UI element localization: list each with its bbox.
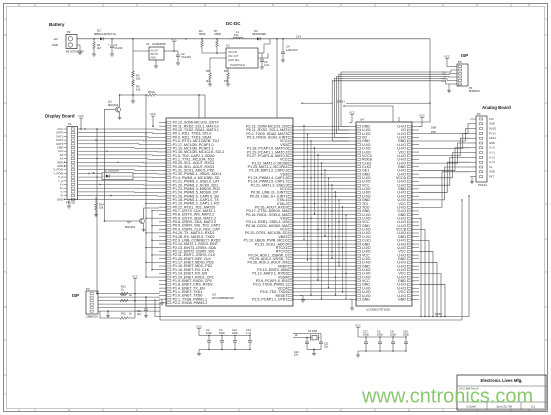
svg-text:Display Board: Display Board: [45, 114, 75, 119]
section label Battery: [49, 22, 65, 27]
svg-text:GND: GND: [489, 122, 495, 126]
ground crystal: [312, 350, 316, 356]
resistor R7: [214, 29, 221, 50]
svg-text:MH1902: MH1902: [125, 225, 136, 229]
svg-text:SB160SMD: SB160SMD: [252, 32, 266, 36]
ground caps1: [197, 352, 201, 356]
resistor R3 divider: [132, 80, 141, 96]
resistor R1: [93, 39, 102, 52]
svg-text:U-I.0: U-I.0: [489, 146, 495, 150]
ground P5: [447, 84, 451, 93]
svg-text:VCC: VCC: [132, 275, 138, 279]
diode module D1: [93, 169, 133, 180]
svg-text:PXC14: PXC14: [478, 183, 487, 187]
net label DAIN: [435, 312, 442, 316]
svg-text:AD0.1: AD0.1: [489, 136, 497, 140]
svg-text:4k7: 4k7: [97, 46, 102, 50]
svg-text:Battery: Battery: [49, 22, 65, 27]
svg-text:CMBGO4: CMBGO4: [86, 315, 98, 319]
svg-text:MBRA140T3LT1G: MBRA140T3LT1G: [94, 32, 116, 36]
svg-text:C: C: [136, 409, 138, 412]
capacitor C3: [219, 328, 225, 350]
diode D2: [94, 29, 116, 41]
resistor R14: [94, 197, 104, 217]
svg-text:GND: GND: [489, 141, 495, 145]
svg-text:22n: 22n: [294, 354, 299, 357]
section label Display Board: [45, 114, 75, 119]
wire Q1 base feed: [104, 110, 106, 222]
ground battery: [78, 50, 83, 55]
svg-text:GND: GND: [151, 57, 157, 60]
ground U3 right: [300, 296, 305, 303]
svg-text:CMD: CMD: [57, 146, 63, 150]
svg-text:P00: P00: [431, 130, 436, 134]
svg-text:U-I.1: U-I.1: [489, 151, 495, 155]
svg-text:RED: RED: [57, 160, 63, 164]
ground R5: [208, 82, 212, 86]
power flag VCC P5: [444, 55, 453, 67]
power flag VCC ISP: [132, 275, 138, 294]
svg-text:R11: R11: [121, 312, 126, 316]
svg-text:R10: R10: [121, 293, 126, 297]
svg-text:10k: 10k: [136, 88, 141, 92]
section label Analog Board: [482, 105, 511, 110]
resistor R12: [120, 284, 128, 295]
svg-text:ON OUT: ON OUT: [228, 54, 239, 58]
ground C1: [110, 52, 114, 56]
ground U4: [349, 299, 354, 310]
svg-text:6R33: 6R33: [199, 32, 206, 36]
capacitor C10: [137, 297, 148, 316]
svg-text:X_POW: X_POW: [53, 168, 63, 172]
svg-text:GND: GND: [57, 164, 63, 168]
wire U2 out: [264, 39, 270, 58]
svg-text:PY10: PY10: [489, 131, 496, 135]
svg-text:12V: 12V: [296, 34, 301, 38]
svg-text:3.3u: 3.3u: [264, 63, 270, 67]
svg-text:Analog Board: Analog Board: [482, 105, 511, 110]
svg-text:10k: 10k: [99, 206, 104, 210]
svg-text:CLK: CLK: [58, 149, 63, 153]
capacitor C2 output: [174, 51, 191, 61]
svg-text:22n: 22n: [324, 345, 329, 348]
svg-text:PXT: PXT: [489, 175, 495, 179]
svg-text:1.1u: 1.1u: [246, 331, 252, 335]
wire caps1 rails: [199, 335, 251, 352]
connector P4: [470, 112, 497, 187]
svg-text:X-: X-: [60, 194, 63, 198]
svg-text:A1: A1: [60, 157, 64, 161]
net label P00: [431, 130, 436, 134]
connector P1: [66, 122, 78, 204]
ram U4: [349, 118, 419, 312]
connector P5: [453, 60, 480, 93]
svg-text:R6: R6: [224, 69, 228, 73]
svg-text:100n: 100n: [377, 332, 383, 336]
svg-text:www.cntronics.com: www.cntronics.com: [361, 386, 533, 408]
svg-text:P5: P5: [458, 60, 462, 64]
svg-text:G: G: [408, 409, 410, 412]
ground R1: [92, 52, 96, 56]
svg-text:PLM2574HV: PLM2574HV: [230, 63, 245, 67]
svg-text:GND: GND: [362, 297, 370, 301]
svg-text:VCC: VCC: [419, 114, 425, 118]
svg-text:DAC0: DAC0: [489, 127, 497, 131]
svg-text:MH1902: MH1902: [108, 103, 119, 107]
svg-text:VCC: VCC: [150, 112, 156, 116]
wire battery minus: [77, 45, 80, 50]
svg-text:C: C: [136, 4, 138, 7]
section label ISP upper: [461, 53, 468, 58]
svg-text:LP2824935: LP2824935: [152, 42, 166, 46]
svg-text:VCC: VCC: [171, 38, 177, 42]
transistor Q1: [104, 94, 133, 116]
svg-text:DAT1: DAT1: [56, 134, 63, 138]
svg-text:P1: P1: [68, 122, 72, 126]
svg-text:P2.5..PCAP1.1..DTR1: P2.5..PCAP1.1..DTR1: [252, 297, 288, 301]
svg-text:10k: 10k: [136, 77, 141, 81]
svg-text:G: G: [408, 4, 410, 7]
wire battery plus: [77, 38, 97, 40]
resistor R9: [133, 90, 200, 97]
svg-text:GND: GND: [52, 43, 58, 47]
svg-text:Q3: Q3: [127, 220, 131, 224]
svg-text:VCC: VCC: [78, 114, 84, 118]
transistor Q3: [104, 208, 159, 229]
ground caps2: [356, 353, 360, 357]
svg-text:VCC: VCC: [355, 324, 361, 328]
wire MCU left stubs to bus: [145, 94, 159, 278]
resistor R10: [120, 293, 135, 302]
svg-text:BH6RCM: BH6RCM: [469, 90, 480, 93]
capacitor C14: [246, 328, 252, 350]
svg-text:Y-: Y-: [61, 190, 64, 194]
wire U1 input: [133, 39, 144, 51]
svg-text:GND: GND: [489, 170, 495, 174]
svg-text:100n: 100n: [390, 332, 396, 336]
svg-text:H: H: [476, 409, 478, 412]
wire crystal gnd rail: [307, 349, 321, 351]
svg-text:DRG1: DRG1: [337, 99, 345, 103]
power flag VCC caps1: [196, 325, 202, 336]
svg-text:ISP: ISP: [461, 53, 468, 58]
wire bottom bus DAIN: [155, 195, 470, 320]
switcher U2: [220, 44, 264, 69]
wire VBUS to U3 top: [276, 39, 278, 118]
svg-text:Electronic Lives Mfg.: Electronic Lives Mfg.: [481, 378, 523, 383]
wire channel to U4 top: [343, 105, 393, 122]
ground P3 stub: [106, 310, 110, 317]
capacitor C17: [363, 329, 369, 351]
svg-text:VCC: VCC: [196, 325, 202, 329]
capacitor C4: [281, 39, 298, 62]
svg-text:100n: 100n: [206, 331, 212, 335]
svg-text:H: H: [528, 409, 530, 412]
svg-text:R5: R5: [206, 69, 210, 73]
svg-text:DAT0: DAT0: [56, 131, 63, 135]
power flag VCC U4 right: [419, 114, 425, 127]
capacitor C16: [403, 329, 409, 351]
ground C2: [176, 61, 180, 65]
svg-text:RST: RST: [442, 81, 447, 83]
wire bundle U4 to P4: [419, 124, 470, 207]
crystal X1: [293, 330, 321, 342]
svg-text:H: H: [476, 4, 478, 7]
svg-text:U4: U4: [360, 118, 364, 122]
svg-text:4k7: 4k7: [137, 312, 142, 316]
wire feed to U3 top: [199, 95, 205, 118]
connector P2: [52, 30, 85, 53]
capacitor C9: [260, 53, 270, 69]
svg-text:P4: P4: [477, 112, 481, 116]
svg-text:P2: P2: [67, 30, 71, 34]
svg-text:U1: U1: [146, 42, 150, 46]
wire bundle U3 to U4: [300, 126, 349, 299]
svg-text:D1 100352A: D1 100352A: [104, 169, 119, 173]
capacitor C2a: [206, 328, 212, 350]
wire 12V to analog: [399, 39, 430, 122]
ground divider: [131, 95, 135, 103]
svg-text:ISP: ISP: [72, 293, 79, 298]
resistor R2 divider: [132, 51, 141, 81]
svg-text:GND: GND: [57, 197, 63, 201]
ground U3 left: [160, 299, 164, 305]
capacitor C8: [390, 329, 396, 351]
svg-text:100n: 100n: [363, 332, 369, 336]
connector P1 pin labels: [53, 127, 67, 201]
svg-text:H: H: [528, 4, 530, 7]
wire bundle P3 to U3: [96, 293, 160, 311]
svg-text:X_A: X_A: [58, 175, 63, 179]
svg-text:XX 18M: XX 18M: [308, 330, 317, 333]
svg-text:VIN FB: VIN FB: [228, 50, 237, 54]
wire bundle P1 to U3: [78, 128, 160, 199]
svg-text:D: D: [204, 409, 206, 412]
ground U1: [154, 60, 158, 68]
capacitor C5: [377, 329, 383, 351]
ground P1 bottom: [67, 200, 71, 209]
svg-text:140u/16V: 140u/16V: [286, 48, 298, 52]
ground C10: [144, 314, 148, 318]
svg-text:VCC: VCC: [349, 111, 355, 115]
ground P4: [470, 177, 474, 184]
power flag VCC display: [78, 114, 84, 130]
svg-text:GND: GND: [398, 297, 406, 301]
wire caps2 rails: [358, 336, 407, 353]
svg-text:100n: 100n: [219, 331, 225, 335]
net label D08: [431, 126, 436, 130]
resistor R6: [224, 68, 229, 83]
svg-text:PPC20: PPC20: [66, 201, 76, 205]
svg-text:10u: 10u: [234, 33, 239, 37]
wire channel verticals: [303, 125, 346, 299]
svg-text:C50R: C50R: [214, 32, 221, 36]
svg-text:DC-DC: DC-DC: [226, 21, 241, 26]
svg-text:U-I.3: U-I.3: [489, 160, 495, 164]
svg-text:DAT2: DAT2: [56, 138, 63, 142]
svg-text:Y_POW: Y_POW: [53, 171, 63, 175]
inductor L1: [227, 30, 250, 39]
svg-text:47u/16V: 47u/16V: [181, 55, 191, 59]
ground Q1: [118, 116, 122, 120]
section label DC-DC: [226, 21, 241, 26]
ground Q3: [142, 228, 146, 232]
svg-text:D08: D08: [431, 126, 436, 130]
wire vertical display feed: [96, 128, 98, 293]
svg-text:+12: +12: [53, 37, 58, 41]
resistor R4: [199, 29, 206, 50]
capacitor C12: [232, 328, 238, 350]
svg-text:UL: UL: [489, 165, 493, 169]
svg-text:DAIN: DAIN: [435, 312, 442, 316]
resistor R11: [100, 301, 135, 320]
microcontroller U3: [159, 118, 300, 306]
svg-text:A0: A0: [60, 153, 64, 157]
svg-text:DAT3: DAT3: [56, 142, 63, 146]
svg-text:X+: X+: [60, 186, 64, 190]
regulator U1: [144, 42, 174, 60]
svg-text:R9 1k: R9 1k: [148, 90, 156, 94]
svg-text:Y_A: Y_A: [58, 179, 63, 183]
svg-text:VCC: VCC: [444, 55, 450, 59]
svg-text:47u/16: 47u/16: [114, 46, 123, 50]
power flag VCC U4: [349, 111, 355, 123]
wire U4 right drops: [419, 218, 446, 317]
wire 12V rail: [112, 38, 430, 40]
capacitor C11: [319, 342, 329, 350]
net label 12V: [296, 34, 301, 38]
svg-text:LCA256U/75T100U: LCA256U/75T100U: [366, 308, 390, 312]
power flag VCC U1 out: [171, 38, 177, 52]
watermark: [361, 386, 533, 408]
svg-text:+: +: [108, 42, 110, 46]
wire U2 vin: [202, 50, 220, 54]
ground R6: [226, 82, 230, 86]
diode D3: [250, 29, 270, 40]
svg-text:U2: U2: [226, 44, 230, 48]
svg-text:100n: 100n: [403, 332, 409, 336]
section label ISP lower: [72, 293, 79, 298]
power flag VCC caps2: [355, 324, 361, 337]
svg-text:U-I.2: U-I.2: [489, 155, 495, 159]
capacitor C1: [108, 38, 123, 52]
svg-text:100n: 100n: [232, 331, 238, 335]
svg-text:LPC2368FBD100: LPC2368FBD100: [212, 296, 234, 300]
resistor R5: [206, 58, 220, 83]
svg-text:12V: 12V: [489, 117, 494, 121]
connector P3: [86, 287, 98, 319]
power flag VCC bundle: [150, 112, 156, 127]
net label DRG1: [301, 99, 430, 104]
capacitor C13: [294, 337, 309, 357]
title block: [457, 375, 546, 410]
svg-text:D: D: [204, 4, 206, 7]
svg-text:Y+: Y+: [60, 183, 64, 187]
wire bundle P5 to channel: [332, 70, 453, 141]
svg-text:GND SIG: GND SIG: [228, 58, 239, 62]
svg-text:P2.2..RXD8..PWM1.2: P2.2..RXD8..PWM1.2: [173, 301, 208, 305]
svg-text:VCC: VCC: [57, 127, 63, 131]
svg-text:P3: P3: [86, 287, 90, 291]
